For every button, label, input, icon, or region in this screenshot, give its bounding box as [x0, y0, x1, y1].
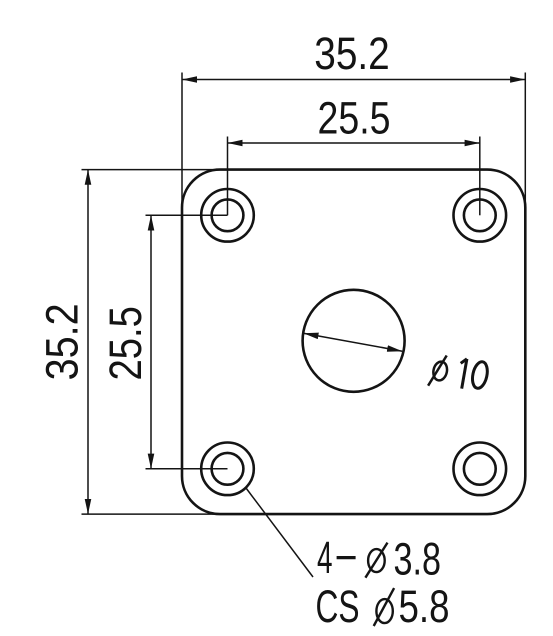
dim 25.5 top: left extension line: [227, 137, 229, 216]
hole bottom-right outer: [454, 443, 507, 496]
dim 35.2 left: dimension line: [87, 170, 89, 514]
dim 25.5 left: top extension line: [146, 214, 228, 216]
svg-text:3.8: 3.8: [394, 533, 442, 584]
dim 25.5 top: dimension line: [228, 142, 480, 144]
hole bottom-left inner: [212, 453, 244, 485]
svg-text:25.5: 25.5: [100, 306, 151, 381]
dim 35.2 top: left extension line: [181, 73, 183, 209]
hole top-left inner: [212, 199, 244, 231]
svg-text:CS: CS: [316, 581, 360, 632]
dim 25.5 left: dimension line: [150, 215, 152, 468]
hole bottom-right inner: [464, 453, 496, 485]
leader line to corner hole: [246, 488, 313, 577]
svg-text:35.2: 35.2: [314, 28, 390, 79]
dim 35.2 left: bottom extension line: [82, 513, 222, 515]
dim 35.2 left: top extension line: [82, 169, 222, 171]
label 4-ø3.8: dash: [337, 556, 356, 559]
plate outline: [182, 170, 525, 514]
hole bottom-left outer: [201, 443, 254, 496]
svg-text:5.8: 5.8: [399, 581, 450, 632]
diameter arrow of center hole: [303, 333, 402, 351]
label CS ø5.8: diameter symbol: [374, 588, 394, 626]
dim 35.2 top: dimension line: [182, 79, 525, 81]
svg-text:4: 4: [317, 532, 333, 583]
hole top-right inner: [464, 199, 496, 231]
dim 35.2 top: right extension line: [524, 73, 526, 209]
center hole: [303, 290, 405, 392]
label ø10 of center hole: value 10: [461, 359, 490, 390]
hole top-right outer: [454, 189, 507, 242]
label ø10 of center hole: diameter symbol: [428, 356, 449, 386]
hole top-left outer: [201, 189, 254, 242]
dim 25.5 top: right extension line: [479, 137, 481, 216]
svg-text:25.5: 25.5: [318, 93, 391, 144]
svg-text:35.2: 35.2: [37, 303, 88, 380]
label 4-ø3.8: diameter symbol: [365, 543, 387, 578]
dim 25.5 left: bottom extension line: [146, 468, 228, 470]
